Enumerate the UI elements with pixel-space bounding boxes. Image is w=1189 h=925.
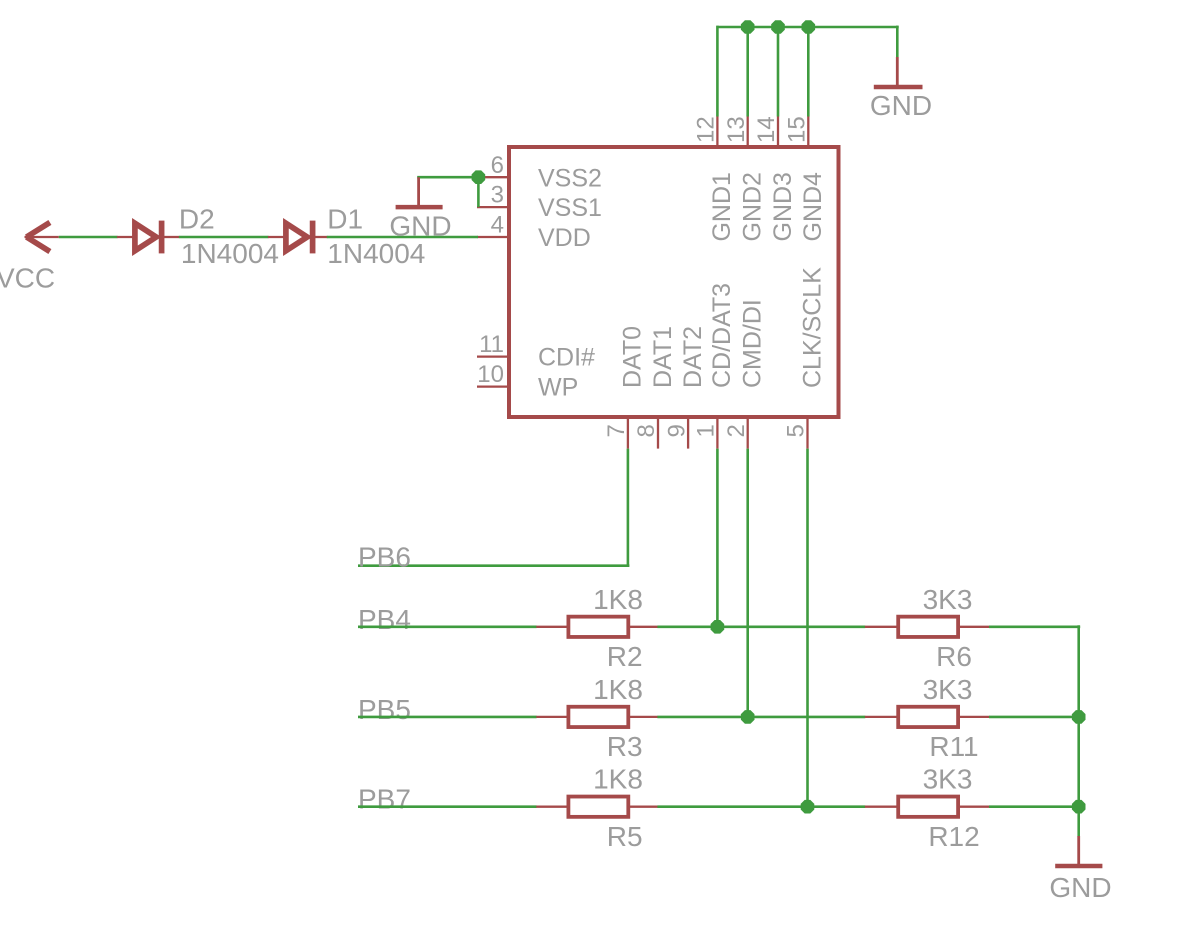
wire: pin 12 vertical [716,26,719,117]
svg-text:R5: R5 [607,821,643,852]
wire: R3 to R11 [657,716,865,719]
svg-text:12: 12 [693,116,720,143]
svg-text:R11: R11 [929,731,978,762]
wire: pin 14 vertical [777,27,780,117]
pin number 8 [633,424,660,437]
wire: pin 2 (CMD/DI) vertical [746,449,749,717]
net label GND (top right) [870,90,932,121]
pin 2 stub [747,415,749,449]
svg-text:D1: D1 [327,204,363,235]
svg-text:R12: R12 [928,821,979,852]
svg-text:14: 14 [753,116,780,143]
svg-text:1K8: 1K8 [593,584,643,615]
wire: GND net top horizontal [717,26,898,29]
value 3K3 (R11) [923,674,973,705]
resistor R6 symbol [865,617,990,637]
resistor R5 symbol [536,797,658,817]
wire: PB4 to 1K8 resistor [358,625,537,628]
pin name CDI# [538,344,595,372]
junction: top wire / pin 15 [802,20,816,34]
svg-text:R3: R3 [607,731,643,762]
svg-text:9: 9 [663,424,690,437]
svg-text:CD/DAT3: CD/DAT3 [708,283,736,388]
svg-text:DAT1: DAT1 [649,326,677,388]
ground symbol (top right) [874,57,923,87]
junction: pin 6 / GND wire [472,170,486,184]
pin 5 stub [806,415,808,449]
svg-text:R6: R6 [936,641,972,672]
pin number 9 [663,424,690,437]
pin number 2 [723,424,750,437]
svg-text:11: 11 [479,331,504,358]
pin name WP [538,374,578,402]
value 3K3 (R12) [923,764,973,795]
svg-text:DAT2: DAT2 [679,326,707,388]
pin name CMD/DI [739,299,767,388]
designator R6 [936,641,972,672]
pin 15 stub [807,117,809,150]
svg-text:5: 5 [783,424,810,437]
wire: VCC to D2 [59,236,118,239]
pin number 11 [479,331,504,358]
svg-text:CLK/SCLK: CLK/SCLK [798,267,826,388]
junction: pin 5 / PB7 row [801,800,815,814]
svg-text:R2: R2 [607,641,643,672]
pin number 7 [603,424,630,437]
svg-text:VSS1: VSS1 [538,194,602,222]
svg-text:1N4004: 1N4004 [327,238,425,269]
svg-text:GND3: GND3 [769,172,797,241]
pin name GND4 [799,172,827,242]
designator D2 [179,204,215,235]
pin name VSS2 [538,164,602,192]
svg-text:GND: GND [1049,872,1111,903]
wire: down to top GND [896,26,899,57]
svg-text:8: 8 [633,424,660,437]
pin number 12 [693,116,720,143]
net label PB4 [358,604,411,635]
designator R5 [607,821,643,852]
wire: PB7 to 1K8 resistor [358,805,537,808]
resistor R11 symbol [865,707,990,727]
designator R2 [607,641,643,672]
ground symbol (left of IC) [396,177,443,207]
svg-text:3: 3 [491,182,504,209]
value 1K8 (R2) [593,584,643,615]
svg-text:1N4004: 1N4004 [181,238,279,269]
svg-text:15: 15 [784,116,811,143]
pin number 3 [491,182,504,209]
wire: D1 to pin 4 (VDD) [327,236,478,239]
pin name GND3 [769,172,797,241]
resistor R2 symbol [536,617,658,637]
svg-text:PB4: PB4 [358,604,411,635]
pin name DAT2 [679,326,707,388]
svg-text:VCC: VCC [0,263,55,294]
pin number 4 [491,212,504,239]
wire: pin 7 (DAT0) vertical [627,449,630,566]
pin name DAT1 [649,326,677,388]
diode D1 symbol [268,221,328,254]
svg-text:PB5: PB5 [358,694,411,725]
wire: D2 to D1 [179,236,269,239]
svg-text:3K3: 3K3 [923,584,973,615]
pin name CLK/SCLK [798,267,826,388]
svg-text:3K3: 3K3 [923,674,973,705]
svg-text:GND4: GND4 [799,172,827,242]
pin number 6 [491,152,504,179]
wire: pin 5 (CLK/SCLK) vertical [806,449,809,807]
svg-text:10: 10 [477,361,504,388]
svg-text:2: 2 [723,424,750,437]
value 3K3 (R6) [923,584,973,615]
wire: pin 6 to left GND [417,176,478,179]
value 1K8 (R5) [593,764,643,795]
pin 10 stub [477,385,510,387]
value 1N4004 (D2) [181,238,279,269]
pin name VSS1 [538,194,602,222]
pin 9 stub [687,415,689,449]
net label PB7 [358,784,411,815]
svg-text:CDI#: CDI# [538,344,595,372]
designator R11 [929,731,978,762]
resistor R12 symbol [865,797,990,817]
net label GND (bottom right) [1049,872,1111,903]
diode D2 symbol [117,221,179,254]
pin number 14 [753,116,780,143]
designator R3 [607,731,643,762]
wire: R2 to R6 [657,625,865,628]
svg-text:D2: D2 [179,204,215,235]
pin 13 stub [747,117,749,150]
wire: PB5 to 1K8 resistor [358,716,537,719]
pin number 10 [477,361,504,388]
wire: pin 15 vertical [807,27,810,117]
wire: PB6 horizontal [358,564,629,567]
svg-text:CMD/DI: CMD/DI [739,299,767,388]
wire: right rail vertical [1077,625,1080,836]
pin 11 stub [477,355,510,357]
pin number 1 [693,424,720,437]
wire: R6 to right rail [989,625,1080,628]
wire: pin 6 junction down to pin 3 [477,177,480,207]
pin name GND2 [739,172,767,241]
svg-text:PB7: PB7 [358,784,411,815]
junction: top wire / pin 14 [771,20,785,34]
svg-text:GND: GND [389,210,451,241]
pin 12 stub [716,117,718,150]
pin name GND1 [708,172,736,241]
designator D1 [327,204,363,235]
svg-text:4: 4 [491,212,504,239]
svg-text:1: 1 [693,424,720,437]
svg-text:7: 7 [603,424,630,437]
svg-text:13: 13 [723,116,750,143]
wire: R11 to right rail [989,716,1080,719]
svg-text:GND: GND [870,90,932,121]
pin 3 stub [477,206,510,208]
svg-text:GND2: GND2 [739,172,767,241]
wire: R12 to right rail [989,805,1080,808]
junction: pin 1 / PB4 row [711,620,725,634]
svg-text:DAT0: DAT0 [619,326,647,388]
pin 4 stub [477,236,510,238]
pin 1 stub [716,415,718,449]
svg-text:1K8: 1K8 [593,764,643,795]
pin 8 stub [657,415,659,449]
pin number 15 [784,116,811,143]
net label GND (left of IC) [389,210,451,241]
net label PB6 [358,542,411,573]
designator R12 [928,821,979,852]
svg-text:GND1: GND1 [708,172,736,241]
pin 14 stub [777,117,779,150]
svg-text:1K8: 1K8 [593,674,643,705]
pin name CD/DAT3 [708,283,736,388]
junction: top wire / pin 13 [741,20,755,34]
svg-text:VSS2: VSS2 [538,164,602,192]
net label PB5 [358,694,411,725]
pin name DAT0 [619,326,647,388]
svg-text:PB6: PB6 [358,542,411,573]
wire: pin 1 (CD/DAT3) vertical [716,449,719,627]
ground symbol (bottom right) [1055,836,1102,866]
value 1N4004 (D1) [327,238,425,269]
junction: right rail / PB7 row [1072,800,1086,814]
wire: R5 to R12 [657,805,865,808]
svg-text:WP: WP [538,374,578,402]
pin name VDD [538,224,591,252]
svg-text:3K3: 3K3 [923,764,973,795]
pin number 5 [783,424,810,437]
pin number 13 [723,116,750,143]
junction: pin 2 / PB5 row [741,710,755,724]
wire: pin 13 vertical [746,27,749,117]
junction: right rail / PB5 row [1072,710,1086,724]
net label VCC [0,263,55,294]
svg-text:6: 6 [491,152,504,179]
value 1K8 (R3) [593,674,643,705]
pin 7 stub [627,415,629,449]
IC SD-card socket body [509,147,839,417]
resistor R3 symbol [536,707,658,727]
pin 6 stub [477,176,510,178]
svg-text:VDD: VDD [538,224,591,252]
VCC supply arrow symbol [25,222,59,251]
